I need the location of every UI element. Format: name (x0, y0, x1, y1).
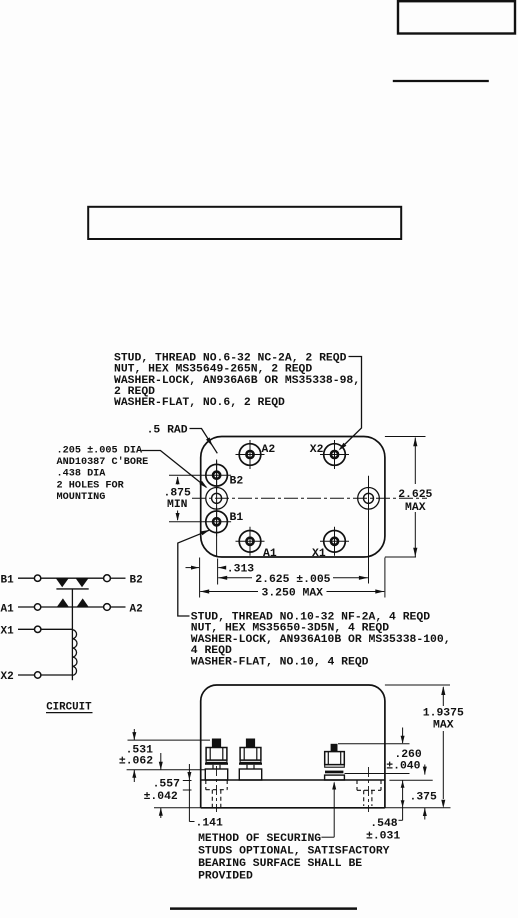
circuit caption (46, 702, 93, 714)
svg-text:STUDS OPTIONAL, SATISFACTORY: STUDS OPTIONAL, SATISFACTORY (198, 846, 390, 858)
dimension .557 ±.042 (144, 753, 181, 818)
top view: relay body outline (201, 437, 385, 558)
svg-text:.438 DIA: .438 DIA (57, 469, 107, 480)
circuit: contact triangle B left (56, 578, 69, 587)
circuit: armature wire (71, 589, 73, 630)
terminal stud B1 (202, 507, 231, 536)
mounting hole right (358, 488, 380, 510)
svg-text:MOUNTING: MOUNTING (57, 492, 106, 503)
svg-text:CIRCUIT: CIRCUIT (46, 702, 92, 714)
terminal stud A1 (236, 527, 265, 556)
svg-text:±.040: ±.040 (386, 761, 420, 773)
circuit: movable contact bar (56, 588, 88, 590)
dimension .313 (186, 564, 255, 576)
centerline horizontal (192, 497, 427, 499)
svg-text:MIN: MIN (167, 499, 188, 511)
note: .5 RAD corner radius (147, 425, 218, 454)
dimension .875 MIN (164, 475, 203, 522)
circuit: contact triangle B right (76, 578, 89, 587)
dimension .141 (recess depth) (183, 764, 223, 830)
svg-text:A1: A1 (1, 603, 15, 615)
leader hole callout to left mounting hole (142, 451, 208, 489)
leader from No.6 note to stud X2 (339, 357, 362, 451)
circuit: terminal B1 (1, 575, 41, 587)
dimension .531 ±.062 (119, 729, 153, 782)
dimension .260 ±.040 (338, 728, 427, 775)
note: No.6 stud hardware (114, 352, 360, 409)
svg-text:PROVIDED: PROVIDED (198, 871, 253, 883)
svg-text:±.031: ±.031 (366, 831, 400, 843)
note: method of securing (198, 833, 390, 883)
svg-text:METHOD OF SECURING: METHOD OF SECURING (198, 833, 321, 845)
svg-text:2 REQD: 2 REQD (114, 386, 155, 398)
svg-text:X2: X2 (1, 671, 14, 683)
circuit: coil wire (71, 630, 73, 681)
dimension 1.9375 MAX (385, 685, 464, 808)
note: No.10 stud hardware (191, 612, 451, 669)
header rule (393, 80, 489, 82)
terminal stud X2 (320, 440, 349, 469)
side view: base shelf line (201, 779, 386, 781)
svg-text:.5 RAD: .5 RAD (147, 425, 188, 437)
svg-text:2.625 ±.005: 2.625 ±.005 (255, 574, 330, 586)
dimension 3.250 MAX (200, 588, 384, 600)
title block box (398, 1, 515, 33)
svg-text:.260: .260 (394, 749, 422, 761)
bottom edge extensions (154, 807, 451, 809)
svg-text:4 REQD: 4 REQD (191, 645, 232, 657)
svg-text:MAX: MAX (405, 502, 426, 514)
svg-text:A1: A1 (263, 548, 277, 560)
svg-text:WASHER-LOCK, AN936A10B OR MS35: WASHER-LOCK, AN936A10B OR MS35338-100, (191, 634, 451, 646)
circuit: terminal A2 (104, 603, 143, 615)
circuit: terminal X2 (1, 671, 73, 683)
svg-text:BEARING SURFACE SHALL BE: BEARING SURFACE SHALL BE (198, 858, 362, 870)
terminal labels (230, 444, 326, 560)
shelf extension right (389, 779, 432, 781)
terminal stud X1 (320, 527, 349, 556)
svg-text:WASHER-LOCK, AN936A6B OR MS353: WASHER-LOCK, AN936A6B OR MS35338-98, (114, 375, 360, 387)
terminal stud A2 (236, 440, 265, 469)
dimension 2.625 ±.005 (218, 574, 368, 586)
svg-text:X1: X1 (1, 626, 15, 638)
svg-text:.557: .557 (153, 779, 181, 791)
footer rule (170, 907, 357, 910)
svg-text:X1: X1 (312, 548, 326, 560)
circuit: A contact line A1-A2 (41, 606, 104, 608)
circuit: contact triangle A right (77, 598, 89, 607)
leader: method of securing to stud base (321, 782, 336, 838)
svg-text:2 HOLES FOR: 2 HOLES FOR (57, 480, 125, 491)
centerline B column (216, 460, 218, 558)
svg-text:1.9375: 1.9375 (423, 708, 464, 720)
svg-text:±.042: ±.042 (144, 791, 178, 803)
svg-text:NUT, HEX MS35650-3D5N, 4 REQD: NUT, HEX MS35650-3D5N, 4 REQD (191, 623, 389, 635)
svg-text:3.250 MAX: 3.250 MAX (262, 588, 324, 600)
svg-text:2.625: 2.625 (398, 489, 432, 501)
extension lines below top view (200, 558, 385, 598)
svg-text:.141: .141 (196, 818, 224, 830)
svg-text:AND10387 C'BORE: AND10387 C'BORE (57, 456, 149, 468)
empty spec box (88, 207, 401, 239)
side view stud X (short) (325, 744, 345, 780)
svg-text:STUD, THREAD NO.10-32 NF-2A, 4: STUD, THREAD NO.10-32 NF-2A, 4 REQD (191, 612, 430, 624)
hidden counterbore right mounting hole (357, 780, 381, 806)
svg-text:.313: .313 (227, 564, 255, 576)
side view: relay body outline (201, 685, 385, 808)
note: mounting hole callout (57, 446, 149, 503)
extension lines left side (127, 740, 210, 770)
circuit: terminal A1 (1, 603, 41, 615)
terminal stud B2 (202, 461, 231, 490)
circuit: B contact line B1-B2 (41, 577, 104, 579)
svg-text:A2: A2 (130, 603, 143, 615)
svg-text:±.062: ±.062 (119, 755, 153, 767)
svg-text:A2: A2 (262, 444, 276, 456)
side view stud A (No.10, tall) (239, 739, 262, 781)
svg-text:.205 ±.005 DIA: .205 ±.005 DIA (57, 446, 143, 457)
centerline stud B column (216, 766, 218, 812)
hidden counterbore under stud B (206, 780, 227, 808)
svg-text:B2: B2 (130, 575, 143, 587)
svg-text:X2: X2 (310, 444, 324, 456)
svg-text:NUT, HEX MS35649-265N, 2 REQD: NUT, HEX MS35649-265N, 2 REQD (114, 364, 312, 376)
dimension .375 (410, 792, 438, 820)
svg-text:B1: B1 (230, 512, 244, 524)
centerline right mounting hole (368, 476, 370, 584)
svg-text:B1: B1 (1, 575, 15, 587)
svg-text:.875: .875 (164, 487, 192, 499)
leader No.10 note to stud B1 (178, 530, 210, 616)
centerline right hole column (368, 767, 370, 812)
svg-text:.375: .375 (410, 792, 438, 804)
svg-text:STUD, THREAD NO.6-32 NC-2A, 2: STUD, THREAD NO.6-32 NC-2A, 2 REQD (114, 352, 347, 364)
side view stud B (No.10, tall) (205, 739, 228, 781)
svg-text:.548: .548 (370, 818, 398, 830)
dimension .548 ±.031 (366, 780, 405, 842)
svg-text:WASHER-FLAT, NO.10, 4 REQD: WASHER-FLAT, NO.10, 4 REQD (191, 656, 369, 668)
svg-text:WASHER-FLAT, NO.6, 2 REQD: WASHER-FLAT, NO.6, 2 REQD (114, 397, 285, 409)
dimension 2.625 MAX (right, vertical) (385, 437, 433, 558)
circuit: coil (72, 630, 77, 676)
svg-text:B2: B2 (230, 476, 244, 488)
circuit: contact triangle A left (57, 598, 69, 607)
circuit: terminal X1 (1, 626, 73, 638)
svg-text:MAX: MAX (433, 720, 454, 732)
circuit: terminal B2 (104, 575, 143, 587)
mounting hole left (206, 488, 228, 510)
